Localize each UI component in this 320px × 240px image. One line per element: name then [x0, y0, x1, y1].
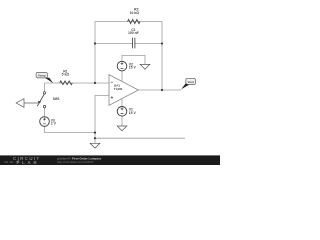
svg-text:TL081: TL081	[114, 87, 123, 91]
wire V1 to ground	[121, 116, 123, 126]
voltage source V2	[117, 61, 127, 71]
wire V2 plus to net arrow	[122, 55, 145, 64]
junction node at ground rail	[94, 137, 96, 139]
wire ground rail stub right	[95, 137, 185, 139]
svg-text:SW1: SW1	[53, 97, 60, 101]
node label Vout	[186, 78, 196, 84]
wire op-amp output to Vout	[138, 89, 181, 91]
junction node at output	[161, 89, 163, 91]
resistor R2	[128, 19, 141, 23]
wire V2 minus to op-amp V+ pin	[121, 71, 123, 81]
svg-text:15 V: 15 V	[129, 66, 137, 70]
wire feedback right vertical	[161, 22, 163, 91]
capacitor C1	[133, 38, 135, 49]
wire control line	[24, 102, 38, 104]
op-amp OA1 TL081	[109, 75, 138, 106]
voltage source V3	[40, 117, 50, 127]
junction node at C1 right	[161, 42, 163, 44]
svg-text:Vstep: Vstep	[38, 73, 46, 77]
control arrowhead	[38, 101, 41, 104]
wire non-inverting input down to ground	[95, 96, 109, 144]
svg-text:2 V: 2 V	[51, 121, 57, 125]
wire C1 branch left	[95, 43, 132, 45]
svg-text:http://circuitlab.com/c/9463r: http://circuitlab.com/c/9463r	[57, 160, 94, 164]
wire C1 branch right	[135, 43, 162, 45]
footer bar	[0, 155, 220, 165]
switch control net arrow	[16, 99, 24, 108]
junction node at inverting input	[94, 82, 96, 84]
wire feedback left vertical	[94, 22, 96, 84]
svg-text:Vout: Vout	[187, 80, 193, 84]
svg-text:15 V: 15 V	[129, 111, 137, 115]
switch SW1 lever	[37, 94, 44, 106]
voltage source V1	[117, 107, 127, 117]
net arrow at V2 top	[140, 64, 150, 69]
junction node at feedback/C1 left	[94, 42, 96, 44]
wire node to switch top contact	[44, 83, 46, 92]
svg-text:10 kΩ: 10 kΩ	[130, 11, 140, 15]
wire R2 top branch	[95, 21, 162, 23]
wire switch bottom contact to V3	[44, 108, 46, 117]
wire main input Vstep to op-amp inverting input	[45, 82, 109, 84]
junction node at V3 return	[94, 132, 96, 134]
switch SW1 contacts	[43, 92, 45, 94]
ground under V1	[117, 126, 127, 131]
svg-text:5 kΩ: 5 kΩ	[62, 73, 70, 77]
svg-text:100 nF: 100 nF	[128, 31, 139, 35]
wire V3 bottom to ground node	[45, 126, 96, 132]
resistor R1	[60, 81, 73, 85]
ground at non-inverting rail	[90, 143, 100, 148]
node label Vstep	[36, 73, 47, 78]
svg-text:LAB: LAB	[22, 160, 39, 165]
wire op-amp V- pin to V1	[121, 99, 123, 107]
